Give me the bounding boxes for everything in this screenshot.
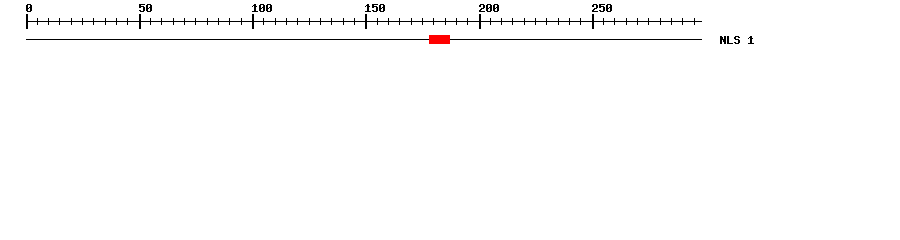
major tick 0 [26,14,28,29]
ruler label 50 [139,4,152,12]
ruler label 150 [365,4,385,12]
NLS motif red box [429,35,450,44]
label NLS 1 [720,36,754,44]
ruler axis line [26,21,702,22]
major tick 150 [365,14,367,29]
ruler label 0 [26,4,32,12]
ruler label 200 [479,4,499,12]
ruler label 250 [592,4,612,12]
ruler label 100 [252,4,272,12]
major tick 50 [139,14,141,29]
minor ticks every 5 residues [37,18,695,25]
protein sequence line [26,39,702,40]
major tick 200 [479,14,481,29]
major tick 100 [252,14,254,29]
major tick 250 [592,14,594,29]
